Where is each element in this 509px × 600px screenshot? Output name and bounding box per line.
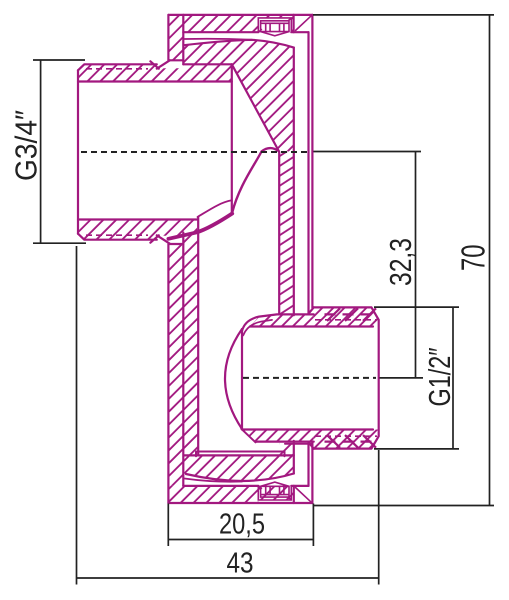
G3/4 top thread band	[78, 64, 232, 81]
bottom bolt	[258, 482, 291, 500]
svg-text:20,5: 20,5	[219, 509, 265, 541]
70 dim	[313, 15, 494, 506]
G3/4 bottom thread band	[78, 220, 197, 240]
dome arcs	[185, 39, 253, 40]
32,3 dim	[313, 151, 421, 153]
svg-text:43: 43	[227, 548, 254, 580]
cup trough under G1/2	[196, 444, 312, 457]
svg-text:70: 70	[455, 244, 492, 271]
20,5 dim	[168, 504, 313, 547]
G1/2 thread crest top	[314, 307, 379, 448]
bottom bowl	[184, 444, 294, 481]
cone slant	[232, 64, 279, 150]
bottom bar outline	[168, 502, 312, 504]
G1/2 dim	[374, 307, 459, 449]
body upper dome/cone region	[183, 40, 293, 152]
magenta outlines	[78, 15, 379, 503]
bottom cup corner diagonal	[296, 488, 311, 502]
cup thick curve	[168, 214, 232, 239]
svg-text:G3/4″: G3/4″	[9, 110, 44, 181]
G3/4 dim	[33, 60, 86, 243]
wall verticals	[197, 217, 199, 455]
centerlines	[81, 152, 376, 378]
right wall left edge	[278, 152, 280, 314]
cup S-curve	[232, 148, 279, 213]
bore end vertical	[231, 64, 233, 212]
thread symbols G1/2 top	[325, 308, 377, 447]
hatched regions	[78, 15, 379, 503]
svg-text:G1/2″: G1/2″	[422, 347, 457, 406]
G1/2 bottom thread band	[314, 430, 379, 449]
G1/2 neck lines	[242, 314, 314, 331]
G1/2 lower neck band	[241, 430, 313, 442]
top bolt	[258, 18, 291, 36]
magenta dashed thread root lines	[86, 69, 377, 436]
svg-text:32,3: 32,3	[383, 238, 418, 286]
top bar	[168, 15, 293, 60]
G1/2 bore	[242, 327, 373, 430]
43 dim	[77, 246, 379, 585]
thread symbols G1/2 bottom	[325, 435, 341, 448]
top cup corner diagonal	[296, 16, 311, 30]
top bar outline	[168, 14, 312, 16]
body right edge	[293, 48, 295, 474]
G1/2 cap arcs	[225, 329, 242, 429]
G1/2 upper neck band	[250, 314, 314, 326]
cup wall right	[309, 15, 313, 315]
bowl arcs	[184, 454, 294, 456]
G3/4 fitting outline	[78, 60, 170, 70]
bottom bar	[168, 486, 293, 503]
G1/2 top thread band	[314, 307, 379, 326]
curve A bore bottom fillet	[198, 200, 232, 217]
left wall	[168, 232, 198, 486]
